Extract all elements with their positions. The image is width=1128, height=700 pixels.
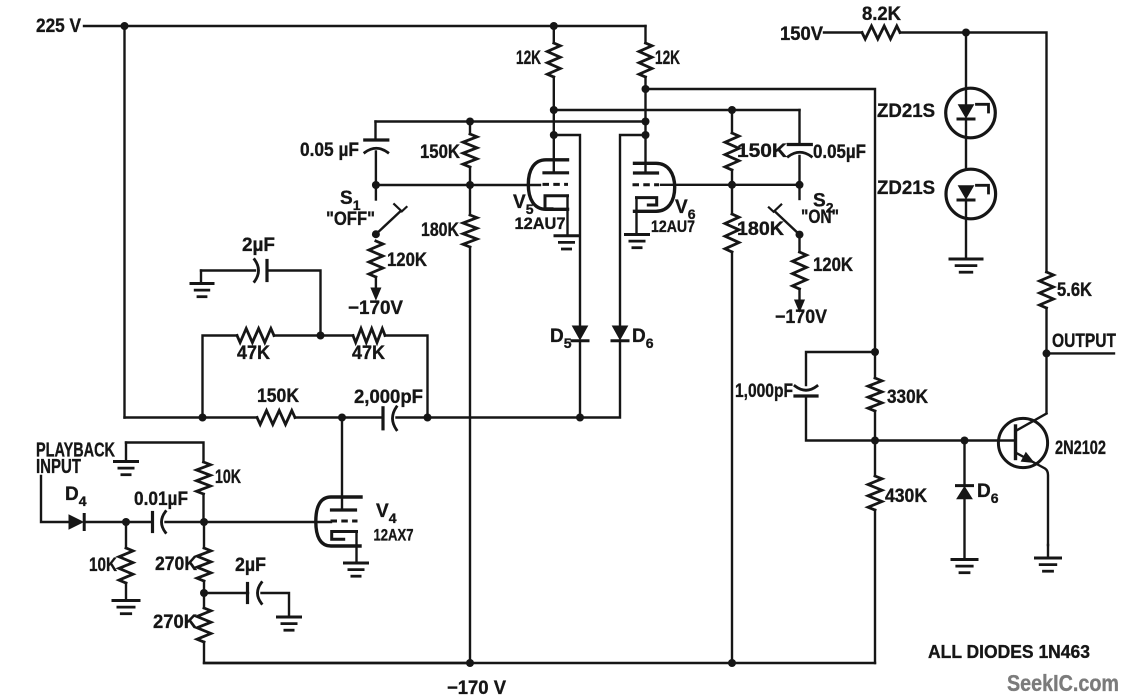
wire S2 to 120K stub [798,235,800,252]
svg-text:1,000pF: 1,000pF [735,381,793,402]
wire 10K lower top stub [125,522,127,548]
arrow -170V right [795,300,805,312]
svg-text:−170 V: −170 V [447,678,506,699]
wire 10K upper bottom [202,494,204,522]
svg-text:180K: 180K [737,219,784,240]
transistor Q1 2N2102 circle [998,418,1047,467]
zener ZD21S upper triangle [959,105,974,118]
svg-text:12AU7: 12AU7 [651,217,695,236]
ground D6 right [952,558,977,561]
wire 2uF bottom left lead [204,592,248,594]
tube V5 plate [544,171,568,174]
wire 330K top stub [874,352,876,378]
capacitor 2000pF [381,408,384,429]
wire 2uF top left lead [201,269,255,271]
svg-text:10K: 10K [89,555,117,576]
tube V4 cathode [332,532,357,540]
switch S2 arm [775,212,800,235]
wire plate V5 coupling rail (y=110) [554,109,800,111]
wire coupling rail to V6 grid cap (y=121.5) [376,120,646,122]
svg-text:8.2K: 8.2K [862,4,901,25]
switch S2 top contact stub [798,185,800,199]
junction top rail / 12K left [550,22,558,30]
resistor 47K second [353,329,385,343]
resistor 12K left [547,43,560,77]
wire D5 branch top [554,135,580,326]
wire 150V feed [824,31,862,33]
transistor Q1 emitter [1016,453,1049,546]
resistor 330K [868,378,882,411]
svg-text:12K: 12K [516,48,541,69]
wire 12K right top stub [644,26,646,43]
junction rail/V6 plate line [642,118,650,126]
wire 430K to -170V bus [874,510,876,663]
junction 270K divider [200,589,208,597]
diode D6 right [957,487,972,499]
svg-text:OUTPUT: OUTPUT [1052,331,1116,352]
tube V5 envelope [528,160,567,210]
tube V5 cathode [545,196,568,209]
wire 2uF bottom right lead [262,593,290,616]
ground emitter [1036,557,1061,560]
resistor 430K [868,476,882,510]
wire 150K right top stub [731,110,733,133]
ground V6 cathode [626,233,649,236]
wire 430K top stub [874,441,876,477]
wire D6 branch top [620,135,646,326]
wire 150K-180K right link [731,170,733,214]
wire 1000pF bottom branch [806,396,999,441]
wire feedback rail right [397,341,621,418]
junction zener branch [962,29,970,37]
svg-text:0.05 µF: 0.05 µF [300,140,359,161]
wire D5 bottom [579,341,581,418]
wire 0.05uF right top lead [798,110,800,145]
svg-text:47K: 47K [237,343,270,364]
svg-text:ZD21S: ZD21S [877,178,935,199]
wire 8.2K to output column [900,33,1047,273]
diode D5 [573,326,588,340]
svg-text:120K: 120K [813,255,853,276]
junction V6 plate / D6 branch [642,131,650,139]
wire 270K junction link [203,581,205,608]
ground 2uF bottom [278,616,301,619]
wire V5 plate line [553,77,555,172]
resistor 47K first [237,329,274,343]
wire 10K lower to ground [125,583,127,600]
junction feedback rail / V4 plate [338,414,346,422]
wire D4 to node [85,521,153,523]
junction feedback rail / D5 [576,414,584,422]
wire 47K row right corner [385,336,428,418]
junction top rail / left vertical [121,22,129,30]
junction feedback rail / 2000pF [424,414,432,422]
svg-text:12AX7: 12AX7 [374,526,414,545]
junction 150K left bottom / grid rail [466,181,474,189]
svg-text:150K: 150K [737,141,787,162]
wire 270K second to -170V bus [204,642,470,663]
junction feedback rail / 47K branch [199,414,207,422]
capacitor 0.05uF right [788,143,811,146]
junction V5 plate / D5 branch [550,131,558,139]
wire 47K row left corner [203,336,238,418]
svg-text:SeekIC.com: SeekIC.com [1007,670,1119,696]
capacitor 1000pF [795,386,817,390]
tube V4 envelope [316,497,361,546]
zener diode ZD21S lower circle [946,169,996,219]
ground input bias wire [126,443,204,463]
svg-text:2µF: 2µF [242,235,275,256]
junction base rail / 330K [871,437,879,445]
ground 10K lower [113,599,139,602]
svg-text:12K: 12K [655,48,680,69]
svg-text:ZD21S: ZD21S [877,101,935,122]
tube V6 plate [635,171,658,174]
tube V6 cathode [637,198,657,205]
wire V6 plate line [644,77,646,173]
wire grid rail V5 (y=185) [376,184,540,186]
wire zener bottom lead [965,200,967,259]
junction grid rail right [728,181,736,189]
resistor 150K feedback [257,411,295,425]
ground V4 cathode [345,562,368,565]
resistor 12K right [639,43,652,77]
svg-text:180K: 180K [421,220,459,241]
capacitor 2uF top [255,260,259,282]
wire 0.05uF right bottom lead [798,156,800,185]
ground input bias stub [125,443,127,461]
resistor 120K right [793,252,807,289]
transistor Q1 base lead [999,439,1016,441]
wire 225V feed stub [84,25,125,27]
junction base rail / D6 [961,437,969,445]
junction bus / 180K-right branch [728,659,736,667]
junction 12K right bottom [642,85,650,93]
tube V5 grid [543,183,569,186]
wire D6 right top lead [963,441,965,487]
zener ZD21S upper wire [965,89,967,106]
junction S2 node [796,181,804,189]
arrow -170V left [371,288,381,300]
svg-text:12AU7: 12AU7 [515,214,566,233]
wire zener middle link [965,119,967,170]
junction S2 lower contact [796,231,804,239]
diode D4 [69,515,83,529]
resistor 270K second [197,608,211,642]
junction 150K top / coupling rail [466,118,474,126]
wire 1000pF top branch [806,352,875,385]
wire 180K right to -170V bus [731,252,733,663]
wire V4 plate lead [341,418,343,510]
capacitor 0.01uF [151,513,154,532]
wire 120K left to arrow [375,277,377,288]
wire feedback rail left [125,416,258,418]
junction output node [1043,349,1051,357]
wire 120K right to arrow [798,289,800,300]
resistor 8.2K [862,26,900,39]
transistor Q1 base bar [1014,426,1017,459]
wire emitter ground stub [1047,545,1049,557]
switch S1 arm [376,211,401,234]
junction 47K / 2uF [317,332,325,340]
junction bus / 180K-left branch [466,659,474,667]
svg-text:0.01µF: 0.01µF [134,489,188,510]
switch S1 top contact stub [375,185,377,200]
zener ZD21S lower tick [977,185,989,193]
svg-text:120K: 120K [387,250,427,271]
wire zener top lead [965,33,967,89]
ground V5 cathode [555,234,578,237]
junction coupling rail / 150K right [728,106,736,114]
resistor 120K left [369,241,383,277]
wire 330K bottom stub [874,411,876,441]
wire output to collector [1045,353,1047,413]
svg-text:2N2102: 2N2102 [1055,438,1106,459]
resistor 150K right [725,133,739,170]
wire -170V bottom bus [204,662,875,664]
wire V6 cathode lead [635,198,637,234]
svg-text:−170V: −170V [775,307,827,328]
junction grid rail / S1 [372,181,380,189]
wire plate V6 to right column (y=89) [646,89,876,352]
junction 330K top [871,348,879,356]
svg-text:225 V: 225 V [36,16,81,37]
wire 2uF top right lead [267,271,321,336]
zener ZD21S upper tick [977,104,989,112]
wire input drop [41,476,69,522]
wire 0.05uF left bottom lead [375,152,377,186]
resistor 150K left [463,134,477,167]
svg-text:−170V: −170V [348,298,403,319]
wire output lead [1047,352,1115,354]
svg-text:ALL DIODES 1N463: ALL DIODES 1N463 [928,641,1090,662]
svg-text:2µF: 2µF [235,555,266,576]
wire V5 cathode lead [566,196,568,236]
svg-text:270K: 270K [153,612,197,633]
svg-text:2,000pF: 2,000pF [354,387,423,408]
wire D6 right to ground [963,499,965,559]
tube V6 envelope [635,163,675,211]
svg-text:270K: 270K [155,554,197,575]
junction S1 lower contact [372,230,380,238]
transistor Q1 emitter arrow [1021,453,1033,463]
svg-text:5.6K: 5.6K [1057,280,1092,301]
svg-text:330K: 330K [887,387,928,408]
wire 225V top rail [125,25,646,27]
capacitor 0.05uF left [365,138,388,141]
tube V4 plate [332,508,356,511]
wire 150K-180K link [469,167,471,215]
switch S1 arm tick [394,204,406,211]
junction V5 plate rail [550,106,558,114]
zener ZD21S lower triangle [959,186,974,199]
diode D6 middle [613,326,628,340]
zener diode ZD21S upper circle [946,88,996,138]
ground zeners [950,258,982,261]
resistor 10K upper [197,462,211,494]
wire 47K middle link [274,334,353,336]
wire 12K left top stub [553,26,555,43]
wire cap to grid node [166,521,332,523]
ground input bias [115,460,138,463]
wire 180K left to -170V bus [469,247,471,663]
svg-text:430K: 430K [885,486,927,507]
svg-text:"ON": "ON" [801,207,839,228]
svg-text:150K: 150K [420,142,460,163]
svg-text:150V: 150V [780,24,823,45]
wire left vertical bus [123,26,125,418]
resistor 180K right [725,214,739,252]
wire V4 cathode lead [355,532,357,563]
wire 270K first link [203,522,205,548]
resistor 10K lower [119,548,133,583]
tube V4 grid [331,520,358,523]
ground 2uF top [191,282,213,285]
junction input node 10K [122,518,130,526]
svg-text:10K: 10K [215,467,241,488]
capacitor 0.05uF left lead [374,122,376,141]
capacitor 2uF bottom [246,584,249,603]
tube V6 grid [633,183,660,186]
svg-text:47K: 47K [352,343,385,364]
ground 2uF top stub [200,271,202,284]
wire V6 grid to 150K right [661,184,800,186]
wire feedback rail mid [295,416,383,418]
wire 150K left top stub [469,122,471,135]
resistor 5.6K [1040,272,1054,308]
svg-text:0.05µF: 0.05µF [813,142,866,163]
resistor 270K first [197,548,211,581]
resistor 180K left [463,215,477,247]
transistor Q1 collector [1016,414,1047,432]
svg-text:"OFF": "OFF" [326,209,375,230]
wire 5.6K to output node [1045,308,1047,353]
svg-text:INPUT: INPUT [36,456,81,478]
svg-text:150K: 150K [257,386,299,407]
switch S2 arm tick [769,205,781,212]
junction grid node V4 [200,518,208,526]
